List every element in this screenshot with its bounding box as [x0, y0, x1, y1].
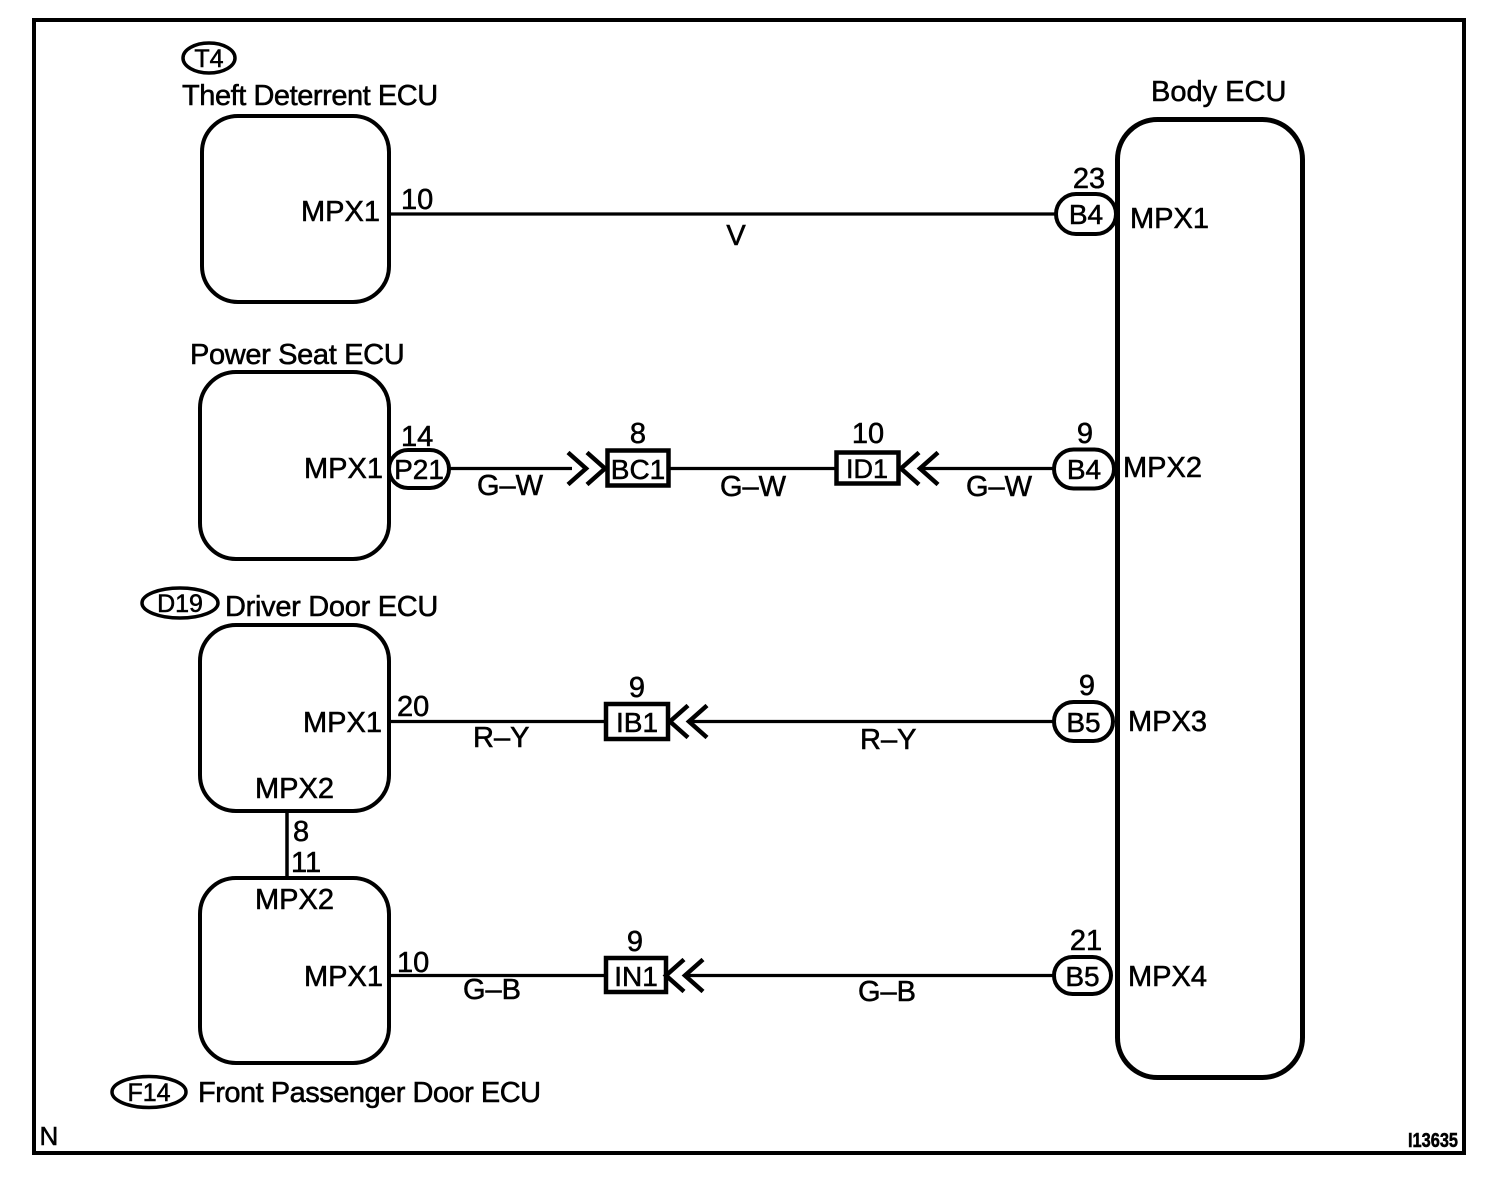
wire G-W (P21 to BC1): [449, 467, 572, 470]
svg-text:MPX4: MPX4: [1128, 961, 1207, 993]
wire R-Y (IB1 to Body B5): [690, 720, 1054, 723]
svg-text:MPX3: MPX3: [1128, 706, 1207, 738]
svg-text:MPX1: MPX1: [1130, 203, 1209, 235]
ECU box Power Seat: [200, 372, 389, 559]
svg-text:G–W: G–W: [477, 470, 544, 502]
junction box IB1: [606, 704, 668, 739]
wire junction (Driver MPX2 to Passenger MPX2): [285, 811, 289, 878]
svg-text:23: 23: [1073, 163, 1105, 195]
connector B4 (row 2): [1054, 450, 1114, 489]
svg-text:8: 8: [293, 816, 309, 848]
svg-text:B5: B5: [1066, 707, 1100, 738]
connector oval T4: [183, 43, 235, 73]
connector B5 (row 3): [1054, 702, 1113, 741]
svg-text:Theft Deterrent ECU: Theft Deterrent ECU: [182, 80, 438, 112]
svg-text:MPX1: MPX1: [304, 453, 383, 485]
svg-text:R–Y: R–Y: [860, 724, 916, 756]
svg-text:G–W: G–W: [720, 471, 787, 503]
svg-text:MPX1: MPX1: [301, 196, 380, 228]
connector oval F14: [112, 1077, 186, 1108]
connector oval D19: [142, 588, 218, 618]
arrow chevrons right (into BC1): [568, 453, 586, 485]
svg-text:Power Seat ECU: Power Seat ECU: [190, 339, 404, 371]
connector B5 (row 4): [1054, 957, 1111, 994]
svg-text:MPX1: MPX1: [303, 707, 382, 739]
junction box IN1: [606, 958, 666, 992]
arrow chevrons left (out of ID1): [901, 453, 919, 485]
wire G-B (Passenger MPX1 to IN1): [389, 974, 606, 977]
svg-text:D19: D19: [157, 590, 203, 618]
junction box BC1: [608, 451, 669, 486]
svg-text:N: N: [40, 1121, 59, 1151]
connector B4 (row 1): [1056, 194, 1116, 234]
svg-text:B5: B5: [1065, 961, 1099, 992]
ECU box Front Passenger Door: [200, 878, 389, 1063]
svg-text:V: V: [726, 220, 746, 252]
ECU box Theft Deterrent: [202, 116, 389, 302]
svg-text:T4: T4: [194, 45, 223, 73]
svg-text:21: 21: [1070, 925, 1102, 957]
svg-text:Driver Door ECU: Driver Door ECU: [225, 591, 438, 623]
svg-text:10: 10: [852, 418, 884, 450]
connector P21: [389, 450, 449, 488]
svg-text:B4: B4: [1069, 199, 1103, 230]
wire G-B (IN1 to Body B5): [686, 974, 1054, 977]
svg-text:MPX2: MPX2: [255, 773, 334, 805]
junction box ID1: [837, 453, 899, 484]
svg-text:MPX1: MPX1: [304, 961, 383, 993]
svg-text:P21: P21: [394, 454, 444, 485]
svg-text:BC1: BC1: [611, 454, 665, 485]
svg-text:R–Y: R–Y: [473, 722, 529, 754]
arrow chevrons left (out of IB1): [670, 706, 688, 738]
svg-text:9: 9: [1077, 418, 1093, 450]
svg-text:Front Passenger Door ECU: Front Passenger Door ECU: [198, 1077, 541, 1109]
svg-text:G–B: G–B: [858, 976, 916, 1008]
svg-text:MPX2: MPX2: [255, 884, 334, 916]
svg-text:11: 11: [291, 847, 321, 879]
svg-text:IB1: IB1: [616, 707, 658, 738]
ECU box Driver Door: [200, 625, 389, 811]
svg-text:G–B: G–B: [463, 974, 521, 1006]
wire V (Theft MPX1 to Body B4): [391, 212, 1058, 215]
ECU box Body ECU: [1118, 120, 1303, 1078]
svg-text:MPX2: MPX2: [1123, 452, 1202, 484]
svg-text:IN1: IN1: [614, 961, 658, 992]
svg-text:B4: B4: [1067, 454, 1101, 485]
svg-text:Body ECU: Body ECU: [1151, 76, 1286, 108]
svg-text:10: 10: [401, 184, 433, 216]
svg-text:20: 20: [397, 691, 429, 723]
svg-text:9: 9: [1079, 670, 1095, 702]
svg-text:8: 8: [630, 418, 646, 450]
arrow chevrons left (out of IN1): [666, 960, 684, 992]
svg-text:ID1: ID1: [846, 454, 888, 484]
svg-text:I13635: I13635: [1408, 1130, 1458, 1152]
svg-text:9: 9: [627, 926, 643, 958]
wire G-W (ID1 to Body B4): [921, 467, 1054, 470]
svg-text:G–W: G–W: [966, 471, 1033, 503]
svg-text:F14: F14: [127, 1079, 170, 1107]
wire R-Y (Driver MPX1 to IB1): [389, 720, 607, 723]
svg-text:9: 9: [629, 672, 645, 704]
wire G-W (BC1 to ID1): [669, 467, 836, 470]
